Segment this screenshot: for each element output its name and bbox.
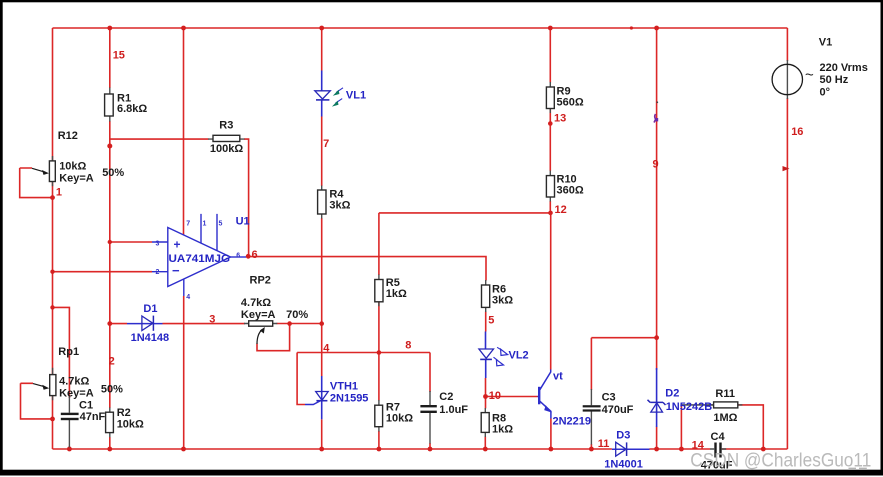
svg-text:UA741MJG: UA741MJG	[169, 253, 231, 265]
svg-text:1: 1	[203, 221, 207, 228]
svg-text:5: 5	[219, 221, 223, 228]
svg-text:6: 6	[252, 249, 258, 261]
svg-text:C1: C1	[79, 400, 93, 412]
thyristor VTH1	[305, 376, 368, 419]
wire R4 to VTH1	[321, 218, 323, 376]
resistor R5	[375, 277, 407, 302]
svg-text:8: 8	[405, 340, 411, 352]
wire R3 branch	[110, 138, 209, 140]
svg-text:11: 11	[598, 438, 610, 450]
svg-text:12: 12	[555, 204, 567, 216]
resistor R1	[105, 93, 148, 117]
svg-text:470uF: 470uF	[602, 404, 634, 416]
wire left rail middle	[52, 182, 54, 374]
svg-text:D2: D2	[665, 388, 679, 400]
svg-text:VTH1: VTH1	[330, 381, 358, 393]
gray component leads	[53, 60, 788, 449]
svg-text:10kΩ: 10kΩ	[386, 413, 413, 425]
wire bottom rail right	[722, 448, 788, 450]
wire VL2 to node10	[485, 378, 487, 409]
svg-text:4.7kΩ: 4.7kΩ	[59, 376, 89, 388]
resistor R4	[318, 189, 351, 215]
wire R11 right leg	[738, 405, 763, 449]
svg-text:Key=A: Key=A	[59, 388, 94, 400]
svg-text:U1: U1	[236, 216, 250, 228]
svg-text:2N2219: 2N2219	[553, 416, 592, 428]
wire top rail	[53, 27, 788, 29]
svg-text:2N1595: 2N1595	[330, 393, 369, 405]
svg-text:10: 10	[489, 390, 501, 402]
svg-text:3: 3	[209, 314, 215, 326]
svg-text:100kΩ: 100kΩ	[210, 143, 243, 155]
svg-text:1kΩ: 1kΩ	[386, 288, 407, 300]
source V1	[772, 37, 868, 99]
wire output net6	[249, 257, 486, 281]
resistor R10	[546, 174, 583, 198]
svg-text:Rp1: Rp1	[58, 346, 79, 358]
svg-text:70%: 70%	[286, 309, 308, 321]
capacitor C4	[701, 431, 733, 472]
wire C1 to rail	[68, 446, 70, 449]
wire R8 to rail	[484, 437, 486, 450]
svg-text:C2: C2	[439, 391, 453, 403]
wire emitter to rail	[550, 419, 552, 450]
potentiometer R12	[32, 130, 124, 199]
svg-text:560Ω: 560Ω	[557, 97, 584, 109]
svg-text:9: 9	[653, 159, 659, 171]
svg-text:Key=A: Key=A	[59, 173, 94, 185]
wire plus input	[110, 241, 152, 243]
svg-text:6.8kΩ: 6.8kΩ	[117, 103, 147, 115]
wire bottom rail mid	[650, 448, 711, 450]
wire VL1 to R4	[321, 116, 323, 186]
svg-text:+: +	[174, 238, 181, 252]
wire VTH1 to rail	[321, 419, 323, 449]
svg-text:10kΩ: 10kΩ	[59, 161, 86, 173]
wire net12 horizontal	[379, 212, 551, 214]
svg-text:V1: V1	[819, 37, 832, 49]
svg-text:R2: R2	[117, 407, 131, 419]
diode D3	[604, 430, 649, 471]
svg-text:0°: 0°	[820, 87, 831, 99]
wire RP2 right to VTH column	[277, 323, 322, 325]
svg-text:D3: D3	[616, 430, 630, 442]
svg-text:VL2: VL2	[509, 350, 529, 362]
wire R1 column x=110	[109, 28, 111, 88]
svg-text:50 Hz: 50 Hz	[820, 74, 849, 86]
resistor R3	[210, 120, 243, 156]
LED VL1	[315, 71, 366, 117]
resistor R11	[713, 388, 737, 424]
svg-text:RP2: RP2	[250, 275, 271, 287]
svg-text:C3: C3	[602, 392, 616, 404]
potentiometer RP2	[241, 275, 308, 345]
svg-text:C4: C4	[711, 431, 726, 443]
capacitor C1	[61, 400, 106, 424]
svg-text:220 Vrms: 220 Vrms	[820, 62, 868, 74]
svg-text:1N4001: 1N4001	[604, 459, 643, 471]
svg-text:7: 7	[186, 221, 190, 228]
svg-text:5: 5	[488, 315, 494, 327]
node 9 arrow mark on V1 wire	[783, 166, 790, 171]
svg-text:1: 1	[56, 187, 62, 199]
wire left rail lower	[52, 396, 54, 449]
svg-text:360Ω: 360Ω	[557, 185, 584, 197]
wire C3 to rail	[590, 444, 592, 449]
svg-text:7: 7	[323, 138, 329, 150]
wire C2 lower	[429, 443, 431, 449]
svg-text:R11: R11	[715, 388, 735, 400]
svg-text:6: 6	[236, 252, 240, 259]
zener diode D2	[648, 368, 714, 427]
svg-text:3kΩ: 3kΩ	[329, 200, 350, 212]
wire C2 upper	[429, 353, 431, 393]
wire net8 horizontal	[297, 352, 430, 354]
svg-text:2: 2	[156, 269, 160, 276]
wire R11 left leg	[680, 405, 682, 449]
svg-text:~: ~	[805, 67, 814, 84]
purple glitch mark on node9 wire	[654, 101, 658, 122]
diode D1	[127, 303, 169, 344]
svg-text:10kΩ: 10kΩ	[117, 419, 144, 431]
wire VL1 column upper	[321, 28, 323, 71]
svg-text:R12: R12	[58, 130, 78, 142]
svg-text:2: 2	[109, 356, 115, 368]
wire D1 net3 right to RP2	[163, 323, 246, 325]
transistor Q vt 2N2219	[538, 370, 592, 428]
svg-text:16: 16	[791, 126, 803, 138]
potentiometer Rp1	[33, 346, 123, 400]
wire RP2 wiper loop	[257, 324, 290, 351]
watermark CSDN	[690, 451, 871, 472]
resistor R7	[375, 402, 413, 427]
LED VL2	[479, 332, 529, 379]
svg-text:Key=A: Key=A	[241, 309, 276, 321]
wire net8 gate loop	[297, 353, 305, 405]
capacitor C3	[583, 392, 634, 417]
svg-text:D1: D1	[143, 303, 157, 315]
svg-text:3kΩ: 3kΩ	[492, 295, 513, 307]
resistor R6	[482, 284, 514, 308]
capacitor C2	[420, 391, 468, 416]
svg-text:4: 4	[323, 343, 330, 355]
wire R12 loop	[20, 168, 53, 198]
svg-text:1kΩ: 1kΩ	[492, 424, 513, 436]
svg-text:4: 4	[186, 294, 190, 301]
svg-text:VL1: VL1	[346, 90, 366, 102]
resistor R8	[481, 413, 513, 436]
svg-text:47nF: 47nF	[80, 411, 106, 423]
wire D2 column	[656, 28, 658, 370]
resistor R9	[546, 86, 583, 109]
wire R6 to VL2	[485, 312, 487, 332]
svg-text:50%: 50%	[102, 167, 124, 179]
op-amp U1	[152, 214, 250, 301]
wire collector	[550, 213, 552, 370]
wire base node10	[486, 396, 538, 398]
wire left rail upper	[52, 28, 54, 161]
svg-text:13: 13	[554, 113, 566, 125]
svg-text:3: 3	[156, 241, 160, 248]
svg-text:CSDN @CharlesGuo11: CSDN @CharlesGuo11	[690, 451, 871, 472]
svg-text:50%: 50%	[101, 384, 123, 396]
svg-text:15: 15	[113, 50, 125, 62]
svg-text:4.7kΩ: 4.7kΩ	[241, 297, 271, 309]
wire U1 column x=183.5	[183, 28, 185, 235]
svg-text:1N5242B: 1N5242B	[666, 401, 713, 413]
svg-text:−: −	[172, 263, 180, 278]
svg-text:vt: vt	[553, 371, 563, 383]
svg-text:1N4148: 1N4148	[131, 332, 170, 344]
wire right rail V1	[786, 28, 788, 61]
wire C3 net top	[591, 338, 656, 390]
net number labels	[109, 50, 804, 452]
wire D1 net3 left	[110, 323, 127, 325]
wire bottom rail left	[53, 448, 612, 450]
wire step to C1	[53, 307, 70, 398]
svg-text:1MΩ: 1MΩ	[713, 412, 737, 424]
wire R5 column	[378, 213, 380, 275]
wire R9 column	[549, 28, 551, 83]
wire Rp1 loop	[21, 383, 53, 419]
wire minus input	[53, 271, 153, 273]
svg-text:1.0uF: 1.0uF	[439, 404, 468, 416]
svg-text:R3: R3	[219, 120, 233, 132]
resistor R2	[106, 407, 144, 433]
